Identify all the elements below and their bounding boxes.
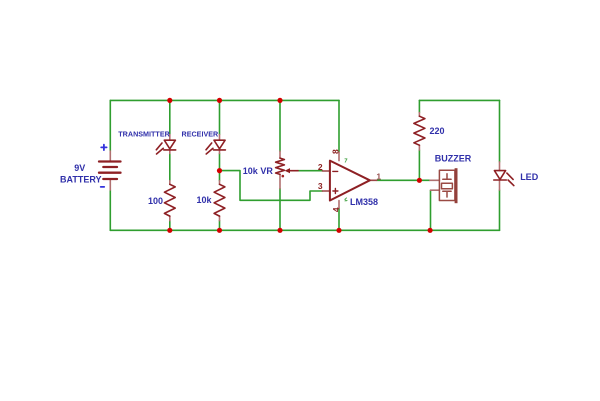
svg-text:8: 8 — [331, 149, 341, 154]
svg-text:BATTERY: BATTERY — [60, 175, 102, 185]
svg-text:TRANSMITTER: TRANSMITTER — [118, 129, 170, 138]
svg-text:9V: 9V — [74, 163, 85, 173]
svg-text:100: 100 — [148, 196, 163, 206]
svg-text:2: 2 — [318, 162, 323, 172]
svg-text:220: 220 — [430, 126, 445, 136]
svg-text:LED: LED — [520, 172, 539, 182]
svg-text:10k VR: 10k VR — [243, 166, 274, 176]
svg-text:3: 3 — [318, 181, 323, 191]
svg-text:BUZZER: BUZZER — [435, 153, 472, 163]
svg-text:4: 4 — [331, 207, 341, 212]
svg-text:LM358: LM358 — [350, 197, 378, 207]
svg-text:1: 1 — [376, 171, 381, 181]
svg-text:RECEIVER: RECEIVER — [182, 129, 220, 138]
svg-text:10k: 10k — [196, 195, 212, 205]
